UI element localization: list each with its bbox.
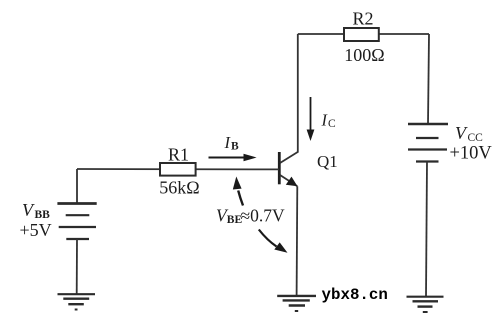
svg-text:CC: CC	[468, 132, 484, 144]
svg-text:+5V: +5V	[20, 220, 52, 240]
arrow: VBE to emitter wire	[259, 230, 288, 253]
current arrow IB	[209, 154, 257, 161]
resistor R1	[160, 163, 196, 176]
svg-text:100Ω: 100Ω	[344, 45, 384, 65]
resistor R2	[344, 28, 379, 41]
svg-text:ybx8.cn: ybx8.cn	[322, 286, 388, 304]
ground (emitter)	[277, 296, 316, 311]
ground (right, VCC)	[407, 297, 444, 312]
ground (VBB)	[58, 294, 96, 309]
svg-text:+10V: +10V	[450, 144, 493, 164]
svg-text:56kΩ: 56kΩ	[159, 178, 199, 198]
transistor Q1	[279, 152, 298, 187]
current arrow IC	[307, 97, 315, 141]
svg-text:B: B	[231, 141, 239, 153]
battery VCC	[408, 124, 448, 162]
svg-text:≈0.7V: ≈0.7V	[241, 206, 285, 226]
svg-text:Q1: Q1	[317, 152, 338, 171]
wire: VBB battery top vertical	[76, 169, 78, 204]
wire: right vertical (battery to ground)	[426, 162, 427, 298]
wire: base horizontal	[77, 168, 279, 170]
battery VBB	[57, 204, 96, 240]
svg-text:R1: R1	[168, 145, 189, 165]
svg-text:C: C	[328, 118, 336, 130]
arrow: VBE to base wire	[233, 177, 243, 206]
svg-text:R2: R2	[352, 9, 373, 29]
wire: VBB battery to ground	[76, 239, 78, 294]
wire: emitter vertical	[296, 186, 299, 296]
wire: top horizontal (collector to VCC)	[298, 33, 429, 35]
wire: collector vertical	[297, 34, 299, 152]
wire: right vertical (top wire to VCC battery)	[428, 34, 429, 124]
